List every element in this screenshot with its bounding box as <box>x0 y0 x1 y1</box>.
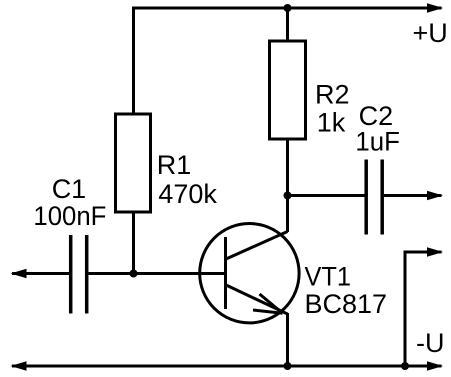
arrow bottom right <box>427 361 443 371</box>
junction node base / R1 <box>130 270 138 278</box>
wire input right segment to base <box>89 272 227 275</box>
arrow top right +U <box>427 3 443 13</box>
svg-text:R2: R2 <box>315 79 350 109</box>
capacitor C2 <box>366 160 382 235</box>
arrow mid right <box>427 247 443 257</box>
svg-text:BC817: BC817 <box>305 289 388 319</box>
junction node collector / output <box>284 192 292 200</box>
resistor R1 <box>116 114 151 212</box>
transistor VT1 emitter line <box>226 285 288 314</box>
wire emitter down <box>286 313 289 366</box>
svg-text:470k: 470k <box>158 179 217 209</box>
capacitor C1 <box>71 235 87 314</box>
svg-text:100nF: 100nF <box>33 201 106 231</box>
transistor VT1 body circle <box>200 224 299 323</box>
wire top rail <box>132 7 442 10</box>
wire R1 top vertical <box>132 7 135 115</box>
svg-text:C1: C1 <box>52 174 87 204</box>
svg-text:+U: +U <box>413 18 448 48</box>
svg-text:1k: 1k <box>317 108 346 138</box>
transistor VT1 collector line <box>226 232 288 260</box>
wire R2 bottom <box>286 139 289 197</box>
svg-text:VT1: VT1 <box>305 262 352 292</box>
junction node top rail / R2 <box>284 4 292 12</box>
resistor R2 <box>270 41 306 139</box>
wire output right segment <box>384 194 442 197</box>
wire -U corner horizontal <box>404 251 442 254</box>
svg-text:-U: -U <box>416 328 445 358</box>
wire input left segment <box>12 272 69 275</box>
wire collector to transistor <box>286 196 289 233</box>
arrow input left <box>11 269 27 279</box>
wire R2 top vertical <box>286 8 289 41</box>
wire output left segment <box>288 194 365 197</box>
wire bottom rail <box>12 365 442 368</box>
wire -U corner vertical <box>404 252 407 366</box>
svg-text:R1: R1 <box>157 150 192 180</box>
wire R1 bottom <box>132 212 135 274</box>
junction node emitter / bottom rail <box>284 362 292 370</box>
arrow bottom left <box>11 361 27 371</box>
junction node -U / bottom rail <box>401 362 409 370</box>
transistor VT1 base bar <box>224 237 227 309</box>
svg-text:1uF: 1uF <box>355 126 400 156</box>
arrow output right <box>427 191 443 201</box>
transistor VT1 emitter arrow barbs <box>260 294 283 313</box>
